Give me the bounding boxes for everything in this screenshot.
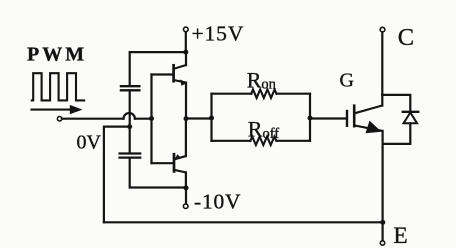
wire R_on left lead	[212, 93, 252, 95]
input terminal	[57, 117, 61, 121]
wire hop over mid column	[124, 113, 135, 119]
svg-text:0V: 0V	[77, 132, 102, 154]
wire Q2 emitter up to output node	[185, 119, 187, 157]
node R network right junction	[308, 116, 313, 121]
wire E stem	[382, 222, 384, 240]
wire to Q1 base	[152, 73, 173, 75]
svg-text:E: E	[393, 223, 407, 248]
capacitor C1 (upper)	[121, 86, 139, 90]
node output junction	[184, 116, 189, 121]
svg-text:Ron: Ron	[247, 67, 277, 92]
svg-text:PWM: PWM	[27, 44, 87, 66]
svg-text:+15V: +15V	[192, 22, 245, 46]
wire collector column	[381, 32, 383, 106]
transistor Q2 (PNP, lower)	[174, 154, 186, 172]
wire R network right branch	[309, 94, 311, 141]
transistor Q1 (NPN, upper)	[174, 65, 187, 86]
terminal -10V	[183, 204, 188, 209]
capacitor C2 (lower)	[120, 154, 141, 158]
svg-text:Roff: Roff	[248, 116, 280, 142]
wire R network left branch	[210, 94, 212, 141]
wire output to R network	[186, 117, 212, 119]
svg-text:C: C	[398, 24, 414, 51]
wire below C2 to -10V rail	[130, 158, 186, 188]
svg-text:-10V: -10V	[194, 190, 241, 214]
wire hop to base node	[135, 118, 152, 120]
wire +15V stem	[185, 32, 187, 52]
wire Q1 emitter down to output node	[185, 83, 187, 119]
terminal +15V	[184, 27, 189, 32]
node -10V junction	[184, 185, 189, 190]
PWM waveform symbol	[32, 73, 84, 100]
wire emitter column	[382, 131, 384, 222]
wire bottom rail	[104, 221, 383, 223]
resistor R_on	[251, 90, 276, 98]
node emitter junction	[380, 220, 385, 225]
wire mid column	[129, 90, 131, 153]
wire top rail	[130, 52, 186, 85]
wire -10V stem	[185, 188, 187, 204]
wire R_off left lead	[212, 140, 251, 142]
node R network left junction	[209, 116, 214, 121]
svg-text:G: G	[340, 69, 354, 91]
diode D1 (anti-parallel)	[382, 95, 418, 144]
node top rail junction	[183, 50, 188, 55]
resistor R_off	[250, 137, 276, 145]
wire Q1 collector up	[185, 52, 187, 65]
input direction arrow	[32, 109, 73, 111]
IGBT V1	[347, 106, 382, 134]
terminal E	[380, 241, 384, 245]
node 0V junction	[127, 124, 132, 129]
wire base column	[150, 75, 152, 164]
node base junction	[149, 116, 154, 121]
wire 0V stub	[104, 127, 130, 223]
wire R_off right lead	[277, 140, 310, 142]
wire Q2 collector down	[185, 172, 187, 188]
wire gate lead	[310, 117, 346, 119]
terminal C	[380, 27, 385, 32]
wire R_on right lead	[277, 93, 311, 95]
wire to Q2 base	[152, 162, 174, 164]
wire input to hop	[62, 118, 124, 120]
